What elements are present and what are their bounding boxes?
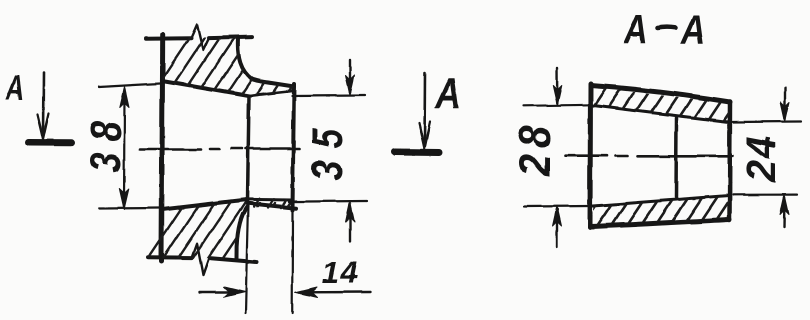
dimension 24 extension line bottom <box>733 194 797 196</box>
dimension 38 value label <box>81 121 130 173</box>
dimension 38 arrowhead bottom <box>119 189 129 210</box>
dimension 28 arrow top <box>556 68 559 103</box>
dimension 24 arrow top <box>784 88 786 120</box>
dimension 38 dimension line <box>123 89 126 207</box>
left view boss right edge <box>293 84 295 210</box>
left view bottom break line <box>192 244 209 276</box>
left view lower fillet <box>237 207 248 259</box>
svg-text:2: 2 <box>510 154 559 177</box>
section arrow left <box>42 72 45 135</box>
left view bore end vertical edge <box>248 96 250 201</box>
right view bore upper edge <box>593 106 729 123</box>
svg-text:5: 5 <box>303 128 352 149</box>
svg-text:A: A <box>5 69 24 108</box>
svg-text:8: 8 <box>510 125 559 148</box>
left view bottom outer edge <box>148 257 256 262</box>
right view centerline <box>565 154 733 157</box>
svg-text:A: A <box>680 8 705 54</box>
svg-text:A: A <box>623 7 648 53</box>
left view bore end extension line <box>246 203 249 313</box>
left view lower section hatching <box>130 203 350 290</box>
dimension 28 arrow bottom <box>556 209 558 248</box>
svg-text:3: 3 <box>303 160 352 180</box>
dimension 24 arrow bottom <box>783 197 786 227</box>
left view tapered bore upper edge <box>162 81 249 96</box>
dimension 35 arrow bottom <box>349 204 351 241</box>
left view upper section hatching <box>140 34 327 112</box>
left view top break line <box>191 25 209 51</box>
left view boss bottom edge <box>246 203 296 208</box>
dimension 14 dimension line left with arrowhead <box>200 291 240 293</box>
dimension 14 dimension line right with arrowhead <box>300 291 371 294</box>
left view boss right edge extension line <box>291 210 293 313</box>
svg-text:A: A <box>434 69 460 118</box>
right view right outer edge <box>727 102 732 221</box>
right view left outer edge <box>588 84 594 227</box>
dimension 38 extension line bottom <box>99 207 160 210</box>
svg-text:4: 4 <box>738 136 785 159</box>
left view left outer edge <box>162 35 163 262</box>
svg-text:8: 8 <box>81 121 130 142</box>
left view upper fillet and boss top edge <box>238 39 294 87</box>
left view tapered bore lower edge <box>162 200 247 210</box>
svg-text:14: 14 <box>322 255 358 290</box>
right view top band hatching <box>578 85 758 138</box>
left view boss bore upper edge <box>249 91 293 96</box>
right view bottom outer edge <box>590 220 730 227</box>
section arrow right <box>423 73 426 145</box>
cutting plane stroke right <box>395 149 440 157</box>
dimension 35 extension line bottom <box>289 200 367 203</box>
dimension 28 extension line top <box>524 105 591 106</box>
left view centerline <box>140 149 299 150</box>
dimension 38 extension line top <box>99 84 160 88</box>
svg-text:3: 3 <box>81 152 130 172</box>
right view bore lower edge <box>593 196 729 207</box>
dimension 24 value label <box>738 136 785 183</box>
right view middle vertical edge <box>674 118 678 197</box>
right view bottom band hatching <box>578 179 758 232</box>
right view top outer edge <box>591 86 731 103</box>
dimension 38 arrowhead top <box>120 87 129 108</box>
left view lower boss sliver hatching <box>254 199 287 209</box>
left view boss bore lower edge <box>247 198 292 202</box>
cutting plane stroke left <box>29 139 72 146</box>
svg-text:2: 2 <box>738 160 785 183</box>
dimension 28 extension line bottom <box>524 205 591 208</box>
dimension 35 extension line top <box>292 94 365 97</box>
dimension 35 value label <box>303 128 352 181</box>
dimension 24 extension line top <box>733 120 801 123</box>
dimension 28 value label <box>510 125 559 177</box>
dimension 35 arrow top <box>349 60 351 94</box>
left view outer top edge <box>146 37 252 39</box>
